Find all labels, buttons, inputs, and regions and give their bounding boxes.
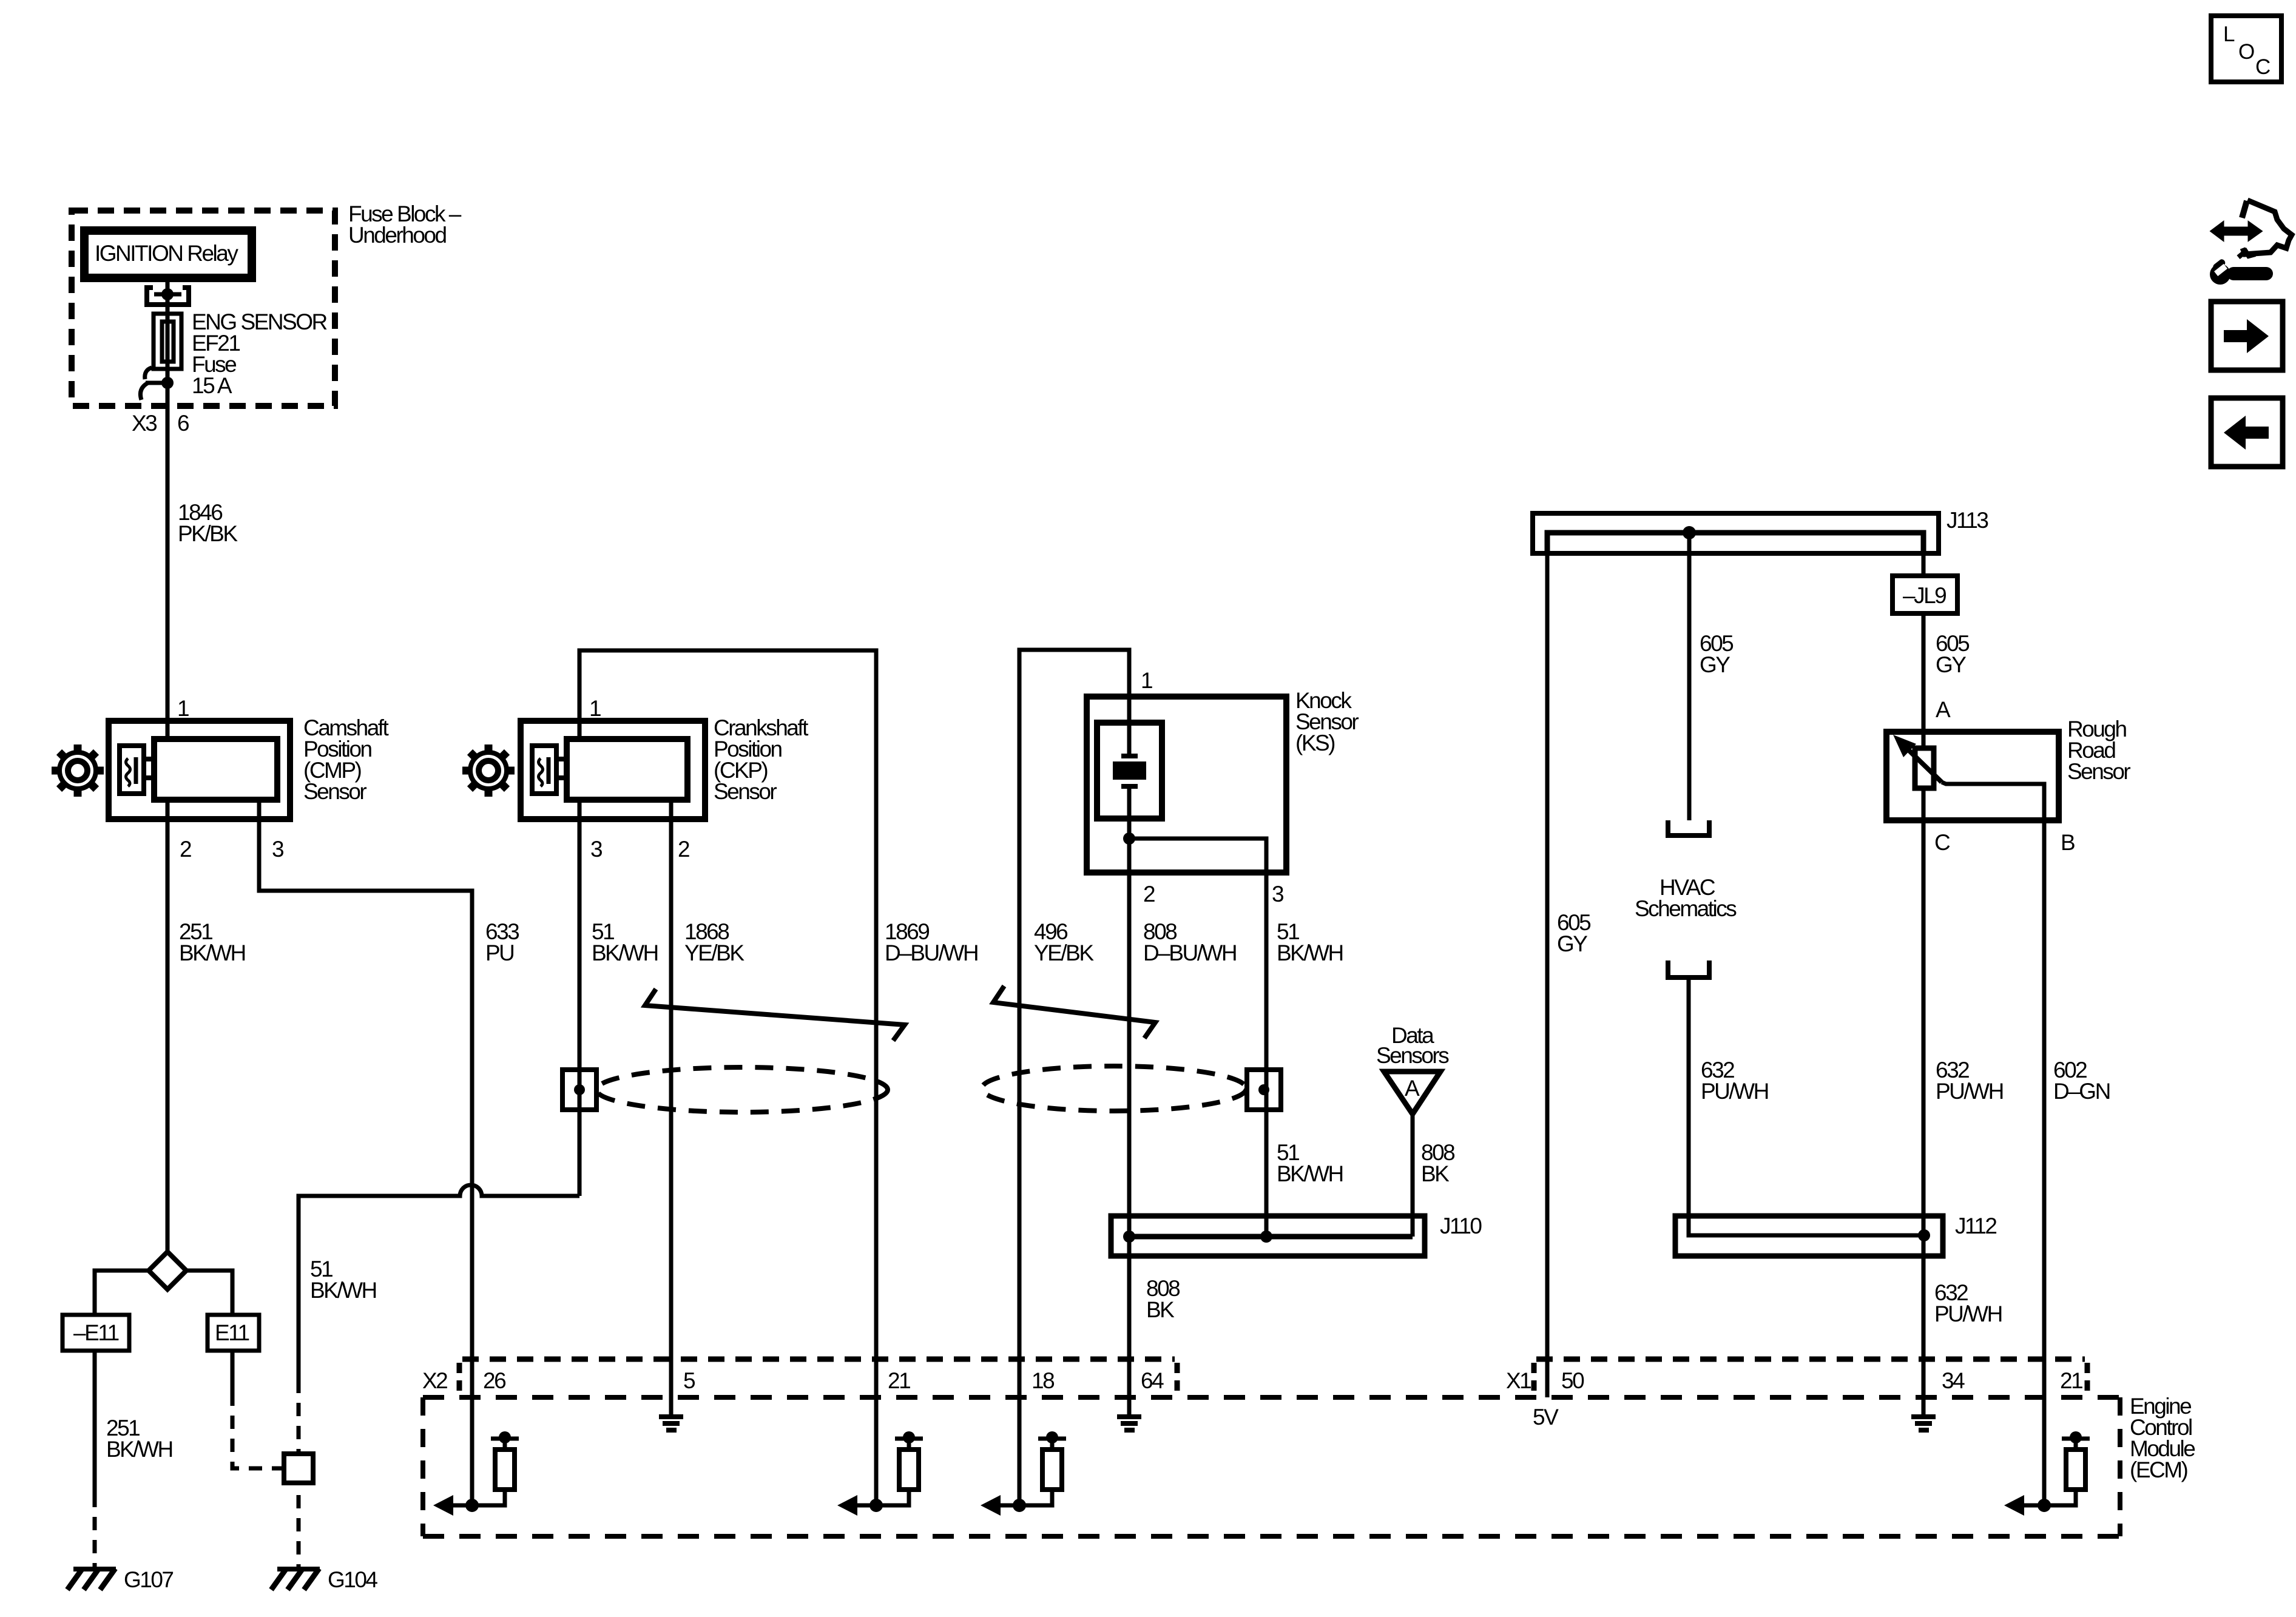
svg-text:BK/WH: BK/WH (310, 1278, 376, 1303)
ECM dashed outline left edge (420, 1397, 425, 1536)
icon: forward arrow box (2211, 302, 2283, 370)
svg-text:PU/WH: PU/WH (1934, 1301, 2002, 1326)
sensor B: Camshaft Position (CMP) Sensor outer box (109, 721, 290, 819)
wire 808 BK from data sensors triangle (1411, 1114, 1415, 1237)
svg-text:J112: J112 (1955, 1214, 1996, 1238)
node: J113 junction (1683, 526, 1696, 539)
svg-text:C: C (2255, 55, 2270, 79)
ECM internal pull-up at pin 26 (433, 1431, 519, 1516)
wire 1868 YE/BK from CKP pin 2 to ECM pin 5 (669, 800, 674, 1414)
shield ellipse (CKP pair) (596, 1067, 888, 1112)
svg-text:D–BU/WH: D–BU/WH (885, 940, 977, 965)
svg-text:GY: GY (1700, 652, 1730, 677)
svg-text:A: A (1405, 1076, 1420, 1101)
wire below E11 (231, 1351, 235, 1393)
CKP element leads (556, 757, 568, 761)
wire through pot (C) (1922, 788, 1926, 1414)
node junction pin 26 (465, 1499, 479, 1512)
fuse F: ENG SENSOR EF21 outer (154, 314, 181, 369)
inline connector square on G104 wire (284, 1454, 313, 1483)
svg-text:–JL9: –JL9 (1903, 583, 1946, 608)
svg-text:50: 50 (1561, 1368, 1584, 1393)
node: relay terminal junction (161, 288, 174, 300)
wire 51 BK/WH from CKP pin 3 (578, 800, 582, 1196)
svg-text:BK: BK (1421, 1161, 1450, 1186)
svg-text:B: B (2061, 830, 2075, 855)
J113 internal bus wire (1547, 533, 1923, 553)
wire: relay output (166, 282, 170, 739)
connector -E11 box (62, 1315, 129, 1351)
svg-text:YE/BK: YE/BK (684, 940, 745, 965)
wire 605 GY (right) from J113 through JL9 to RRS pin A (1922, 553, 1926, 576)
fuse inner rect (162, 322, 174, 362)
splice diamond on 251 BK/WH (149, 1252, 186, 1289)
shield ellipse (KS pair) (982, 1066, 1246, 1111)
svg-text:IGNITION Relay: IGNITION Relay (95, 241, 238, 266)
CKP element box (532, 746, 556, 794)
wire to -E11 (95, 1271, 149, 1315)
svg-text:Underhood: Underhood (348, 223, 447, 248)
svg-text:J113: J113 (1947, 508, 1988, 533)
svg-text:D–GN: D–GN (2053, 1079, 2110, 1104)
svg-text:26: 26 (483, 1368, 505, 1393)
svg-text:2: 2 (678, 837, 689, 862)
svg-text:15 A: 15 A (192, 373, 232, 398)
relay contact hook symbol (145, 368, 152, 379)
svg-text:PK/BK: PK/BK (178, 521, 238, 546)
wire dashed from E11 to inline square (232, 1393, 284, 1468)
wire 633 PU from CMP pin 3 (259, 800, 472, 1505)
svg-text:BK/WH: BK/WH (592, 940, 658, 965)
knock sensor KS outer box (1087, 697, 1286, 873)
node: J110 junction on 808 D-BU/WH (1123, 1230, 1135, 1243)
svg-text:X2: X2 (422, 1368, 447, 1393)
svg-text:1: 1 (589, 696, 601, 721)
svg-text:BK/WH: BK/WH (1277, 940, 1343, 965)
KS inner element box (1097, 723, 1162, 819)
svg-text:PU/WH: PU/WH (1936, 1079, 2003, 1104)
ECM internal ground at pin 64 (1117, 1414, 1141, 1433)
svg-text:YE/BK: YE/BK (1034, 940, 1094, 965)
resistor top lead to 5V rail (503, 1439, 507, 1450)
sensor B: Crankshaft Position (CKP) Sensor outer box (521, 721, 705, 819)
LOC box (top right) (2211, 16, 2281, 82)
svg-text:BK: BK (1146, 1297, 1175, 1322)
svg-text:GY: GY (1557, 931, 1587, 956)
svg-text:(ECM): (ECM) (2130, 1457, 2188, 1482)
svg-text:D–BU/WH: D–BU/WH (1143, 940, 1236, 965)
J110 internal bus (1129, 1234, 1413, 1240)
KS piezo bottom plate (1121, 784, 1138, 789)
connector E11 box (208, 1315, 259, 1351)
KS piezo body (1113, 761, 1146, 780)
node: J110 junction on 51 BK/WH (1260, 1230, 1272, 1243)
svg-text:A: A (1936, 697, 1951, 722)
svg-text:5: 5 (683, 1368, 695, 1393)
svg-text:Sensor: Sensor (303, 779, 366, 804)
twisted pair symbol (KS wires) (993, 986, 1155, 1038)
connector half (to HVAC) upper (1668, 820, 1709, 836)
svg-text:3: 3 (272, 837, 283, 862)
node: J112 junction (1918, 1229, 1930, 1241)
gear icon for CMP (52, 744, 104, 797)
internal wire with arrow (451, 1504, 472, 1508)
gear icon for CKP (462, 744, 515, 797)
svg-text:C: C (1934, 830, 1950, 855)
CMP element leads (144, 757, 155, 761)
splice J112 box (1675, 1216, 1943, 1256)
svg-text:J110: J110 (1440, 1214, 1482, 1238)
wire 808 D-BU/WH from KS pin 2 (1127, 786, 1132, 1414)
svg-text:X3: X3 (132, 411, 157, 436)
splice J110 box (1111, 1216, 1425, 1256)
fuse block underhood dashed box (72, 211, 335, 406)
svg-text:E11: E11 (215, 1320, 249, 1345)
ECM dashed outline top edge (423, 1395, 2120, 1400)
svg-text:(KS): (KS) (1295, 731, 1335, 755)
svg-text:Sensor: Sensor (714, 779, 777, 804)
ECM internal ground at pin 34 (1911, 1414, 1936, 1433)
svg-text:3: 3 (590, 837, 602, 862)
wire 51 BK/WH dashed to G104 (297, 1380, 301, 1569)
wire 51 BK/WH from KS pin 3 (1129, 839, 1266, 1237)
icon: part locator (double arrow + outline + wrench) (2210, 200, 2292, 285)
CMP body rect (154, 739, 277, 800)
svg-text:G104: G104 (328, 1567, 377, 1592)
resistor R pin26 (495, 1450, 515, 1490)
wire 1869 D-BU/WH from CKP pin 1 (579, 650, 876, 1505)
twisted pair symbol (CKP wires) (645, 989, 905, 1041)
svg-text:2: 2 (1143, 882, 1155, 906)
relay terminal crossbar (154, 292, 181, 297)
svg-text:5V: 5V (1533, 1405, 1559, 1430)
connector X2 band top dashed line (462, 1357, 1175, 1362)
connector X1 band top dashed line (1536, 1357, 2085, 1362)
svg-text:21: 21 (888, 1368, 910, 1393)
svg-text:BK/WH: BK/WH (106, 1437, 172, 1462)
wire to E11 (186, 1271, 232, 1315)
CMP element squiggle (126, 758, 130, 786)
ECM internal ground at pin 5 (659, 1414, 683, 1433)
svg-text:Sensor: Sensor (2067, 759, 2130, 784)
svg-text:21: 21 (2060, 1368, 2082, 1393)
node: fuse bottom junction (161, 377, 174, 389)
svg-text:18: 18 (1032, 1368, 1054, 1393)
X2 band left tick (457, 1363, 462, 1393)
svg-text:Sensors: Sensors (1376, 1043, 1449, 1068)
RRS potentiometer element (1915, 748, 1934, 788)
svg-text:6: 6 (177, 411, 189, 436)
svg-text:64: 64 (1141, 1368, 1164, 1393)
data sensors off-page triangle A (1384, 1072, 1440, 1114)
connector half (from HVAC) lower (1668, 960, 1709, 977)
X1 band left tick (1531, 1363, 1537, 1393)
CKP body rect (567, 739, 687, 800)
X2 band right tick (1175, 1363, 1180, 1393)
ECM dashed outline bottom edge (423, 1534, 2120, 1539)
svg-text:PU/WH: PU/WH (1701, 1079, 1768, 1104)
svg-text:1: 1 (177, 696, 189, 721)
wire 605 GY (left) from J113 to ECM pin 50 (1545, 553, 1550, 1397)
wire 602 D-GN from RRS pin B (1942, 782, 2044, 1505)
wire 632 PU/WH from HVAC to J112 (1689, 977, 1924, 1235)
wire 51 BK/WH horizontal run to G104 with hop over 633 PU (299, 1185, 579, 1380)
ECM internal pull-up at pin 21 (X2) (837, 1431, 923, 1516)
wire 605 GY (middle) from J113 to HVAC (1687, 533, 1692, 820)
svg-text:2: 2 (180, 837, 191, 862)
ground G104 (271, 1568, 320, 1590)
wire 496 YE/BK from KS pin 1 (1019, 650, 1129, 1505)
shield drain square (KS) on 51 BK/WH (1247, 1070, 1281, 1110)
relay K: IGNITION Relay box (84, 231, 252, 278)
svg-text:BK/WH: BK/WH (179, 940, 245, 965)
icon: back arrow box (2211, 398, 2283, 467)
ground G107 (67, 1568, 116, 1590)
splice pack J113 outer box (1533, 513, 1939, 553)
svg-text:1: 1 (1141, 668, 1152, 693)
wire 251 BK/WH from CMP pin 2 (166, 800, 170, 1253)
X1 band right tick (2085, 1363, 2090, 1393)
svg-text:34: 34 (1942, 1368, 1965, 1393)
node: KS internal junction (1123, 832, 1135, 845)
svg-text:G107: G107 (124, 1567, 173, 1592)
svg-text:PU: PU (485, 940, 513, 965)
svg-text:L: L (2223, 22, 2235, 46)
wire 251 BK/WH below -E11 (93, 1351, 97, 1494)
svg-text:Schematics: Schematics (1635, 896, 1737, 921)
rough road sensor box (1886, 732, 2059, 820)
CKP element squiggle (539, 758, 543, 786)
relay terminal bracket (147, 288, 189, 305)
svg-text:–E11: –E11 (73, 1320, 119, 1345)
svg-text:GY: GY (1936, 652, 1966, 677)
RRS wiper arrow (1903, 745, 1942, 782)
svg-text:BK/WH: BK/WH (1277, 1161, 1343, 1186)
wire dashed to G107 (93, 1494, 97, 1569)
KS piezo top plate (1121, 754, 1138, 758)
fuse JL9 box (1893, 576, 1957, 613)
shield drain square (CKP) on 51 BK/WH (562, 1070, 596, 1110)
svg-text:X1: X1 (1506, 1368, 1531, 1393)
svg-text:O: O (2238, 40, 2254, 64)
resistor R leg (472, 1490, 505, 1505)
ECM internal pull-up at pin 21 (X1) (2004, 1431, 2090, 1516)
ECM dashed outline right edge (2118, 1397, 2122, 1536)
CMP element box (120, 746, 144, 794)
svg-text:3: 3 (1272, 882, 1283, 906)
ECM internal pull-up at pin 18 (981, 1431, 1066, 1516)
